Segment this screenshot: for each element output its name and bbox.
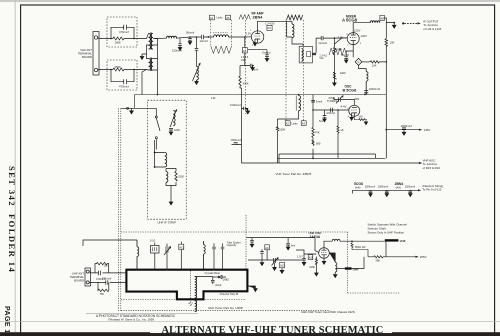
tuned coil in strip xyxy=(173,111,175,126)
wire RF line to grid network xyxy=(176,37,201,38)
box A13 xyxy=(280,262,285,267)
switch contact circle top xyxy=(155,116,157,118)
T1 bottom secondary winding xyxy=(151,59,153,71)
fine tuning wavy link xyxy=(211,46,232,54)
wire socket caps to chassis xyxy=(214,243,223,269)
wire 135V branch xyxy=(386,129,419,131)
svg-text:UHF-VHF Tuner Used With Chassi: UHF-VHF Tuner Used With Chassis 342S xyxy=(301,310,355,314)
variable arrow through coil xyxy=(193,63,201,81)
capacitor 4mf on wire xyxy=(286,238,290,250)
svg-text:-2.9V: -2.9V xyxy=(337,35,344,39)
svg-text:A6: A6 xyxy=(380,16,384,20)
line section cap left xyxy=(260,249,264,260)
capacitor 1000mmf on AGC column xyxy=(242,107,250,114)
node on bus xyxy=(312,157,314,159)
svg-text:A4: A4 xyxy=(302,122,306,126)
node at coax takeoff xyxy=(393,22,395,24)
dashed box UHF IF strip xyxy=(148,100,187,219)
ground below coil xyxy=(195,82,199,85)
svg-text:PAGE 13: PAGE 13 xyxy=(3,306,10,336)
svg-text:100K: 100K xyxy=(309,266,315,269)
svg-text:A1: A1 xyxy=(210,16,214,20)
wire grid net join xyxy=(240,65,245,67)
plate choke coil xyxy=(332,239,340,241)
svg-text:1000mmf: 1000mmf xyxy=(378,186,389,189)
wire plate line to VHF bar xyxy=(340,240,385,242)
svg-text:(AA): (AA) xyxy=(355,186,360,190)
resistor 100K top xyxy=(113,37,124,40)
page top edge shading xyxy=(0,0,500,2)
svg-text:3-10: 3-10 xyxy=(150,240,156,243)
wire bottom lead xyxy=(98,69,147,72)
tube V2B 5CG8 envelope xyxy=(349,105,360,116)
gang wavy link top center xyxy=(239,15,250,20)
node dot xyxy=(196,36,198,38)
wire trimmer row xyxy=(296,250,316,257)
tube V2B cathode xyxy=(352,113,357,116)
svg-text:UHF Tuner Part No. UZ08: UHF Tuner Part No. UZ08 xyxy=(208,306,243,310)
wire crystal row xyxy=(195,276,213,278)
svg-text:Ground: Ground xyxy=(319,42,328,45)
resistor 150K bottom xyxy=(113,68,124,71)
svg-text:56mmf: 56mmf xyxy=(341,53,349,57)
wire tube plate up and right to plate coil xyxy=(258,21,292,37)
svg-text:Channel Strip M: Channel Strip M xyxy=(220,292,239,296)
node dot xyxy=(312,109,314,111)
gang wavy link mixer xyxy=(329,48,347,55)
wire fine tuning left xyxy=(334,97,339,99)
svg-text:Capacity: Capacity xyxy=(227,244,237,247)
coil arrow variable xyxy=(170,110,177,127)
svg-text:Volt: Volt xyxy=(319,57,323,60)
svg-text:1K: 1K xyxy=(340,128,343,132)
capacitor 4mf stub xyxy=(250,238,254,248)
svg-text:Shown Only In UHF Position: Shown Only In UHF Position xyxy=(368,230,405,234)
wire top lead xyxy=(98,38,147,39)
wire grid drop xyxy=(196,37,198,49)
svg-text:A5: A5 xyxy=(226,16,230,20)
IF output coil L4 xyxy=(370,21,380,23)
UHF section dashed boundary vertical pair xyxy=(117,108,119,311)
box A9 xyxy=(265,245,270,250)
dashed top stub xyxy=(121,231,348,233)
svg-text:135V: 135V xyxy=(424,128,431,132)
svg-text:VHF: VHF xyxy=(400,239,406,243)
svg-text:C: C xyxy=(358,60,360,64)
interstage coil shield box xyxy=(299,46,312,63)
tube V2A grid dashes xyxy=(350,37,357,39)
svg-text:1000mmf: 1000mmf xyxy=(369,87,380,91)
svg-text:600Ω 1W: 600Ω 1W xyxy=(355,246,366,249)
svg-text:470mmf: 470mmf xyxy=(119,85,129,89)
switch bar UHF thick xyxy=(345,267,352,269)
capacitor 5mmf grid xyxy=(250,64,254,71)
arrow 255V xyxy=(416,256,419,258)
wire UHF top lead xyxy=(89,272,126,273)
svg-text:47K: 47K xyxy=(315,130,320,134)
UHF switch line xyxy=(336,257,416,269)
osc plate resistor 10K xyxy=(358,119,368,125)
svg-text:BOARD: BOARD xyxy=(74,278,84,282)
svg-text:Links: Links xyxy=(292,121,299,125)
svg-text:15K: 15K xyxy=(104,264,109,268)
resistor 680 ohm osc column xyxy=(312,140,314,145)
trimmer box A11 xyxy=(308,255,313,260)
resistor 100K uhf osc xyxy=(315,257,319,277)
plate line with coil xyxy=(324,241,332,248)
osc coil core line xyxy=(295,96,297,111)
tube V4 grid dashes xyxy=(321,251,327,253)
node dot on bus xyxy=(157,94,159,96)
svg-text:1.3-4.5V: 1.3-4.5V xyxy=(265,23,275,26)
wire osc grid row xyxy=(313,109,349,111)
wire center column down to bus xyxy=(157,39,159,95)
capacitor grid 10mmf xyxy=(195,49,199,67)
svg-text:1000mmf: 1000mmf xyxy=(231,138,242,142)
capacitor 470mmf UHF top xyxy=(99,271,101,276)
switch box A6 xyxy=(380,15,385,20)
wire cap loop top xyxy=(111,27,134,38)
tube V2B plate xyxy=(352,107,357,109)
svg-text:4.5mmf: 4.5mmf xyxy=(326,111,335,115)
T1 core lines top xyxy=(150,33,151,50)
node at 135V branch xyxy=(385,129,387,131)
osc grid column xyxy=(312,95,314,159)
node on plate line xyxy=(351,240,353,242)
UHF terminal lug bottom xyxy=(86,281,89,284)
svg-text:UHF IF STRIP: UHF IF STRIP xyxy=(157,220,176,224)
svg-text:470K: 470K xyxy=(243,81,249,85)
node dot xyxy=(189,36,191,38)
svg-text:1.3V: 1.3V xyxy=(246,33,251,36)
wire T1 secondary joins xyxy=(153,39,158,71)
interstage trimmer box xyxy=(307,52,311,57)
dropping resistor 600 ohm 1W xyxy=(351,241,368,257)
node junction dot xyxy=(208,36,210,38)
wire osc coil bottom to left column xyxy=(278,111,299,119)
capacitor 470mmf bottom xyxy=(124,79,127,84)
wire cap loop bottom xyxy=(111,70,134,82)
ground below T1 xyxy=(140,54,144,60)
resistor 15K horizontal xyxy=(370,61,386,63)
dashed box around top antenna RC xyxy=(107,17,137,47)
dashed bottom line lower xyxy=(121,310,330,312)
svg-text:A9: A9 xyxy=(265,246,269,250)
resistor 15K UHF bridge top xyxy=(95,262,109,273)
wire AGC riser xyxy=(232,88,242,163)
oscillator coil L5 xyxy=(299,96,301,111)
UHF chassis thick outline xyxy=(126,270,247,300)
capacitor 56mmf to ground xyxy=(188,37,192,45)
svg-text:1000mmf: 1000mmf xyxy=(405,186,416,189)
osc trimmer cap 1.5-7 xyxy=(302,254,306,265)
wire osc coil top to bus xyxy=(298,95,300,96)
grid switch box A7 xyxy=(242,48,247,53)
variable capacitor mid xyxy=(164,247,171,256)
resistor 100K mixer lower xyxy=(333,72,336,83)
svg-text:VHF Tuner Part No. 94B75: VHF Tuner Part No. 94B75 xyxy=(276,172,312,176)
socket cap 1 xyxy=(212,246,216,250)
ground for 120mmf xyxy=(178,48,182,51)
svg-text:1000mmf: 1000mmf xyxy=(365,186,376,189)
tube V1 cathode ground xyxy=(253,41,257,46)
coax IF output symbol xyxy=(402,22,404,24)
UHF terminal lug top xyxy=(86,270,89,273)
wire trimmer box riser xyxy=(154,243,156,270)
svg-text:5mmf: 5mmf xyxy=(316,100,323,104)
terminal lug bottom xyxy=(94,68,97,71)
gang dashed line right xyxy=(230,20,232,46)
node dot xyxy=(364,94,366,96)
wire mixer plate up to IF coil xyxy=(353,23,370,33)
capacitor 5mmf to ground xyxy=(323,110,327,122)
svg-text:7: 7 xyxy=(263,35,265,37)
B plus switch line VHF xyxy=(328,239,330,241)
switch contact circle bottom xyxy=(155,137,157,139)
svg-text:©Howard W. Sams & Co., Inc. 19: ©Howard W. Sams & Co., Inc. 1959 xyxy=(108,318,154,322)
resistor 39K xyxy=(374,256,383,258)
svg-text:120mmf: 120mmf xyxy=(172,48,182,52)
capacitor 1000mmf strip xyxy=(169,128,173,135)
ground stub below takeoff xyxy=(392,23,396,29)
tube V2A plate xyxy=(351,33,356,35)
node dots in strip xyxy=(154,152,156,154)
tube V4 cathode xyxy=(321,255,326,259)
test point diamond C xyxy=(355,58,362,65)
svg-text:To Pin 9 of V12: To Pin 9 of V12 xyxy=(422,187,441,191)
wire tube right to coil xyxy=(329,253,337,278)
resistor 75K UHF bridge bottom xyxy=(98,282,109,291)
svg-text:A3: A3 xyxy=(267,26,271,30)
mixer bypass cap xyxy=(211,277,215,284)
preselector coil xyxy=(137,240,139,270)
svg-text:4mf: 4mf xyxy=(291,244,295,247)
cathode bypass cap w ground xyxy=(265,50,269,62)
wires cluster grounds xyxy=(260,250,284,274)
wire diamond to 15K xyxy=(362,61,370,63)
svg-text:100: 100 xyxy=(358,115,363,118)
node dot xyxy=(133,69,135,71)
terminal lug top xyxy=(94,36,97,39)
svg-text:680: 680 xyxy=(316,142,321,146)
cluster bus wire xyxy=(248,259,304,261)
tube V1 cathode xyxy=(255,39,260,43)
VHF AGC line xyxy=(242,162,420,164)
wire cathode to diamond xyxy=(346,45,353,58)
wire secondary to RF line xyxy=(155,37,167,39)
bottom page edge black bar xyxy=(0,334,500,336)
switch wafer box A1 xyxy=(209,15,214,20)
node dot grid leak xyxy=(337,109,339,111)
wire UHF bottom lead xyxy=(89,281,126,283)
antenna transformer T1 bottom primary winding xyxy=(149,59,151,71)
ground stub right of chassis xyxy=(247,286,257,292)
svg-text:(Gnd): (Gnd) xyxy=(215,284,222,287)
VHF ANT terminal board xyxy=(93,32,99,76)
resistor 2.2 Meg strip xyxy=(175,172,177,182)
svg-text:3: 3 xyxy=(360,43,362,45)
coupling capacitor to mixer grid xyxy=(321,36,347,44)
svg-text:255V: 255V xyxy=(420,255,427,259)
heater bus wire y94.5 xyxy=(135,95,387,109)
interstage coil winding xyxy=(302,49,304,62)
tube V4 2AF4A envelope xyxy=(319,248,330,259)
resistor 1K osc grid leak xyxy=(337,110,339,158)
svg-text:BOARD: BOARD xyxy=(82,55,92,59)
switch wafer box A4 xyxy=(301,121,306,126)
AGC box A3 xyxy=(267,25,272,30)
svg-text:122V: 122V xyxy=(354,29,361,33)
svg-text:A7: A7 xyxy=(243,49,247,53)
node dots chassis top xyxy=(136,269,138,271)
capacitor 120mmf stub xyxy=(178,38,182,47)
switch contact pole xyxy=(156,108,160,131)
node dot xyxy=(110,69,112,71)
svg-text:A13: A13 xyxy=(280,264,285,268)
svg-text:2BN4: 2BN4 xyxy=(395,182,404,186)
main B+ column wire xyxy=(385,23,387,159)
svg-text:(AA): (AA) xyxy=(396,186,401,190)
node dot xyxy=(298,94,300,96)
node dot xyxy=(244,36,246,38)
resistor 470K vertical xyxy=(239,66,242,89)
wire box up to coupling cap xyxy=(312,38,321,54)
resistor 10K on column xyxy=(385,38,388,46)
svg-text:56mmf: 56mmf xyxy=(186,31,194,35)
tube V1 2BN4 envelope xyxy=(251,31,263,43)
capacitor 12mmf series xyxy=(201,35,208,40)
svg-text:A11: A11 xyxy=(309,256,314,260)
IF takeoff coil xyxy=(204,241,206,270)
IF output lead coil through notch xyxy=(195,277,197,312)
wire mixer grid left xyxy=(334,38,347,44)
svg-text:1.5-7: 1.5-7 xyxy=(297,255,303,258)
svg-text:150K: 150K xyxy=(115,65,121,69)
svg-text:5100: 5100 xyxy=(178,176,184,179)
dashed link to right xyxy=(348,292,400,294)
arrow 135V xyxy=(419,129,422,131)
node dot xyxy=(386,61,388,63)
switch pole lower wire xyxy=(155,139,157,150)
left column wire xyxy=(277,119,279,163)
svg-text:1000mmf: 1000mmf xyxy=(230,104,241,107)
UHF ant lead-in wire xyxy=(83,240,137,246)
resistor 47K osc column xyxy=(312,127,314,137)
gang dashed at 245.5 xyxy=(245,20,247,114)
svg-text:10K: 10K xyxy=(372,63,377,67)
svg-text:1000mmf: 1000mmf xyxy=(401,124,412,128)
cathode bus wire xyxy=(278,157,386,159)
tube V4 plate xyxy=(322,248,327,251)
T1 core lines bottom xyxy=(150,58,151,72)
arrow VHF AGC xyxy=(419,162,422,164)
switch box A12 xyxy=(179,244,184,249)
tube V4 cathode ground xyxy=(322,258,326,264)
tube V2A 5CG8 envelope xyxy=(347,33,359,45)
tube V1 grid dashes xyxy=(254,35,261,37)
plate load coil L3 xyxy=(287,24,294,38)
ground stub on input xyxy=(130,108,134,114)
capacitor 1000mmf on branch xyxy=(402,128,406,135)
tube V1 plate xyxy=(255,31,260,34)
UHF ANT terminal board xyxy=(85,268,90,286)
svg-text:5CG8: 5CG8 xyxy=(354,182,363,186)
trimmer box innards xyxy=(153,247,157,251)
svg-text:100K: 100K xyxy=(115,40,121,44)
oscillator section coil to ground xyxy=(197,66,199,81)
capacitor 5mmf on osc column xyxy=(311,100,315,102)
tube V2A cathode xyxy=(351,41,356,45)
svg-text:A 5CG8: A 5CG8 xyxy=(342,18,358,23)
wire fine tuning to osc tube top xyxy=(341,100,355,106)
page left margin crease line xyxy=(14,0,16,336)
node dot xyxy=(133,38,135,40)
svg-text:2BN4: 2BN4 xyxy=(253,15,264,20)
svg-text:100K: 100K xyxy=(279,127,285,131)
capacitor 1000mmf AGC xyxy=(234,143,238,145)
arrow heater string xyxy=(418,189,421,191)
mixer cathode resistor 390K xyxy=(333,44,335,83)
preselector trimmer box xyxy=(151,245,159,253)
wire riser at 142 xyxy=(142,70,147,95)
left margin rotated text PAGE 13 xyxy=(3,306,10,336)
svg-text:470mmf: 470mmf xyxy=(102,276,112,280)
left margin rotated text SET 342 FOLDER 14 xyxy=(7,166,17,273)
node dot xyxy=(110,38,112,40)
node circle on input xyxy=(127,107,129,109)
heater wire xyxy=(353,190,418,193)
svg-text:UHF: UHF xyxy=(353,268,359,272)
svg-text:75K: 75K xyxy=(100,292,105,296)
switch bar VHF thick xyxy=(385,239,399,241)
capacitor 4.5mmf series xyxy=(331,108,333,112)
strip coil upper xyxy=(165,153,167,167)
wire bar down xyxy=(385,242,387,257)
svg-text:39K: 39K xyxy=(375,259,380,263)
dashed box around bottom antenna RC xyxy=(107,60,137,90)
bus rectangle top wire xyxy=(279,154,376,163)
wire coil bottom down xyxy=(292,38,303,47)
fine tuning variable capacitor xyxy=(336,96,343,104)
svg-text:Links: Links xyxy=(217,16,224,20)
svg-text:5mmf: 5mmf xyxy=(252,68,259,71)
slug tuned coil L2 xyxy=(214,35,229,37)
capacitor 56mmf mixer cathode xyxy=(344,57,348,63)
svg-text:A2: A2 xyxy=(286,122,290,126)
wire cathode row xyxy=(248,49,267,51)
inductor L1 on RF line xyxy=(167,36,177,38)
wire osc cathode to resistor xyxy=(354,116,358,119)
svg-text:SET 342 FOLDER 14: SET 342 FOLDER 14 xyxy=(7,166,17,273)
B+ column joins bus xyxy=(384,130,386,159)
oscillator injection coil xyxy=(366,69,368,95)
wire coil to box xyxy=(380,18,394,23)
capacitor 1000mmf on bus xyxy=(364,91,368,95)
footer photofact note line rule xyxy=(86,313,198,315)
faint rule above footer xyxy=(0,321,500,323)
svg-text:132V: 132V xyxy=(360,34,367,38)
svg-text:ALTERNATE VHF-UHF TUNER SCHEMA: ALTERNATE VHF-UHF TUNER SCHEMATIC xyxy=(162,325,384,336)
UHF IF strip input wire xyxy=(121,107,157,109)
svg-text:A12: A12 xyxy=(179,245,184,249)
variable cap osc xyxy=(272,258,279,266)
svg-text:68V: 68V xyxy=(354,97,359,101)
svg-text:10K: 10K xyxy=(390,41,395,45)
gang dashed line RF right xyxy=(303,20,305,121)
svg-text:2: 2 xyxy=(252,45,254,47)
switch wafer box A2 xyxy=(285,121,290,126)
dashed bottom line upper xyxy=(121,299,246,301)
